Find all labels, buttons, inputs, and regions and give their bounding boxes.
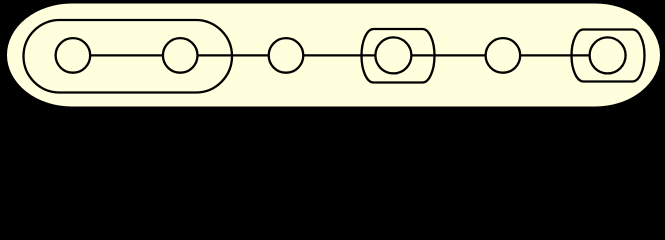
node v1 — [56, 38, 91, 73]
group G outer stadium — [6, 3, 661, 108]
node v3 — [269, 38, 304, 73]
edge v4-v5 — [393, 54, 503, 56]
node v6 — [590, 37, 626, 73]
node v2 — [163, 38, 198, 73]
node v5 — [486, 38, 521, 73]
edge v2-v3 — [180, 54, 286, 56]
group M3 box around node v6 — [572, 30, 645, 82]
edge v1-v2 — [73, 54, 180, 56]
edge v3-v4 — [286, 54, 393, 56]
group M1 oval around nodes v1 v2 — [24, 20, 233, 93]
edge v5-v6 — [503, 54, 608, 56]
node v4 — [375, 37, 411, 73]
group M2 box around node v4 — [362, 29, 435, 83]
